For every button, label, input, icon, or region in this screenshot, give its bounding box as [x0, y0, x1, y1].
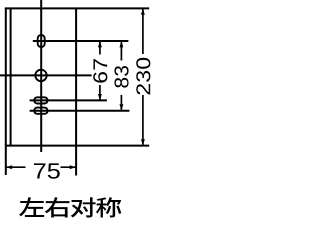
arrow 75 left	[6, 165, 12, 169]
arrow 230 bottom	[141, 139, 145, 145]
arrow 67 top	[98, 41, 102, 47]
plate outer left edge (with 75-dim extension)	[5, 8, 7, 176]
horizontal centerline through circle hole	[0, 74, 102, 76]
circle hole	[35, 70, 46, 81]
halo for dimension text 230	[135, 54, 152, 95]
arrow 67 bottom	[98, 94, 102, 100]
halo for dimension text 75	[26, 160, 61, 179]
slot3 centerline	[30, 110, 130, 112]
plate right edge (with 75-dim extension)	[75, 8, 77, 176]
note text 左右对称 (embedded outlines)	[19, 197, 121, 217]
slot2 centerline	[30, 99, 107, 101]
arrow 83 top	[119, 41, 123, 47]
dimension line 230	[142, 8, 144, 145]
dimension text 230	[136, 58, 150, 95]
plate bottom edge (with 230-dim extension)	[5, 145, 149, 147]
arrow 83 bottom	[119, 104, 123, 110]
dimension line 67	[99, 41, 101, 100]
arrow 75 right	[70, 165, 76, 169]
slot2 horizontal slotted hole	[34, 97, 47, 103]
halo for dimension text 83	[113, 61, 130, 96]
arrow 230 top	[141, 8, 145, 14]
plate inner left fold line	[10, 8, 12, 146]
dimension text 75	[34, 163, 60, 178]
slot1 vertical slotted hole	[38, 35, 45, 47]
vertical centerline	[40, 0, 42, 152]
dimension text 67	[93, 59, 107, 82]
halo for dimension text 67	[92, 55, 109, 86]
plate top edge (with 230-dim extension)	[5, 7, 149, 9]
slot3 horizontal slotted hole	[34, 108, 47, 114]
slot1 centerline	[33, 40, 129, 42]
dimension line 83	[120, 41, 122, 111]
dimension text 83	[114, 66, 128, 88]
dimension line 75	[6, 166, 76, 168]
